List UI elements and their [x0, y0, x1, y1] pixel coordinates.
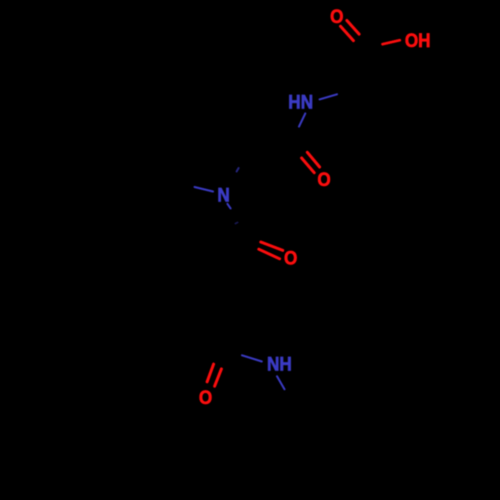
svg-text:HN: HN: [288, 90, 313, 112]
svg-text:N: N: [217, 184, 229, 206]
svg-text:O: O: [330, 5, 343, 27]
svg-text:O: O: [199, 386, 212, 408]
svg-text:O: O: [284, 246, 297, 268]
svg-text:O: O: [317, 168, 330, 190]
svg-text:NH: NH: [267, 352, 292, 374]
svg-text:OH: OH: [405, 29, 431, 51]
